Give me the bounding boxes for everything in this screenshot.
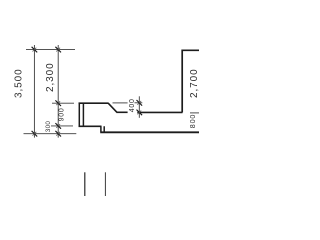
soffit line left part — [116, 111, 127, 113]
svg-text:2,700: 2,700 — [189, 68, 199, 98]
svg-text:400: 400 — [129, 98, 136, 112]
tick at 3500 bottom — [32, 131, 38, 137]
extension line bottom datum — [24, 133, 77, 135]
wall bottom edge — [79, 125, 102, 127]
svg-text:3,500: 3,500 — [14, 68, 25, 98]
wall left end inner line — [82, 103, 84, 126]
extension line top datum — [26, 49, 75, 51]
tick 400 top — [137, 100, 143, 106]
wall sloped soffit (diagonal) — [108, 103, 117, 112]
wall top edge — [79, 102, 109, 104]
tick chain 900-300 — [55, 123, 61, 129]
dimension line 400 — [138, 96, 140, 118]
notch rectangle — [101, 126, 104, 132]
svg-text:900: 900 — [59, 107, 66, 121]
tick chain 2300-900 — [55, 100, 61, 106]
svg-text:800: 800 — [188, 114, 197, 128]
dimension line chain 2300/900/300 — [57, 45, 59, 138]
lower wall line right — [104, 172, 106, 196]
right structure corner — [182, 50, 199, 112]
svg-text:2,300: 2,300 — [45, 62, 56, 92]
extension line 400 top right — [135, 102, 143, 104]
ground line — [100, 131, 199, 133]
extension line 400 top left — [113, 102, 128, 104]
tick at 3500 top — [32, 47, 38, 53]
extension line 300 top — [51, 125, 73, 127]
extension line 800 top — [190, 112, 199, 114]
tick chain bottom — [55, 131, 61, 137]
tick 400 bottom — [137, 110, 143, 116]
lower wall line left — [84, 172, 86, 196]
wall left end outer line — [78, 103, 80, 128]
tick chain top — [55, 47, 61, 53]
soffit line right part — [137, 111, 182, 113]
extension line mid (900 top) — [52, 102, 74, 104]
svg-text:300: 300 — [45, 121, 52, 133]
dimension line 3500 — [33, 45, 35, 138]
